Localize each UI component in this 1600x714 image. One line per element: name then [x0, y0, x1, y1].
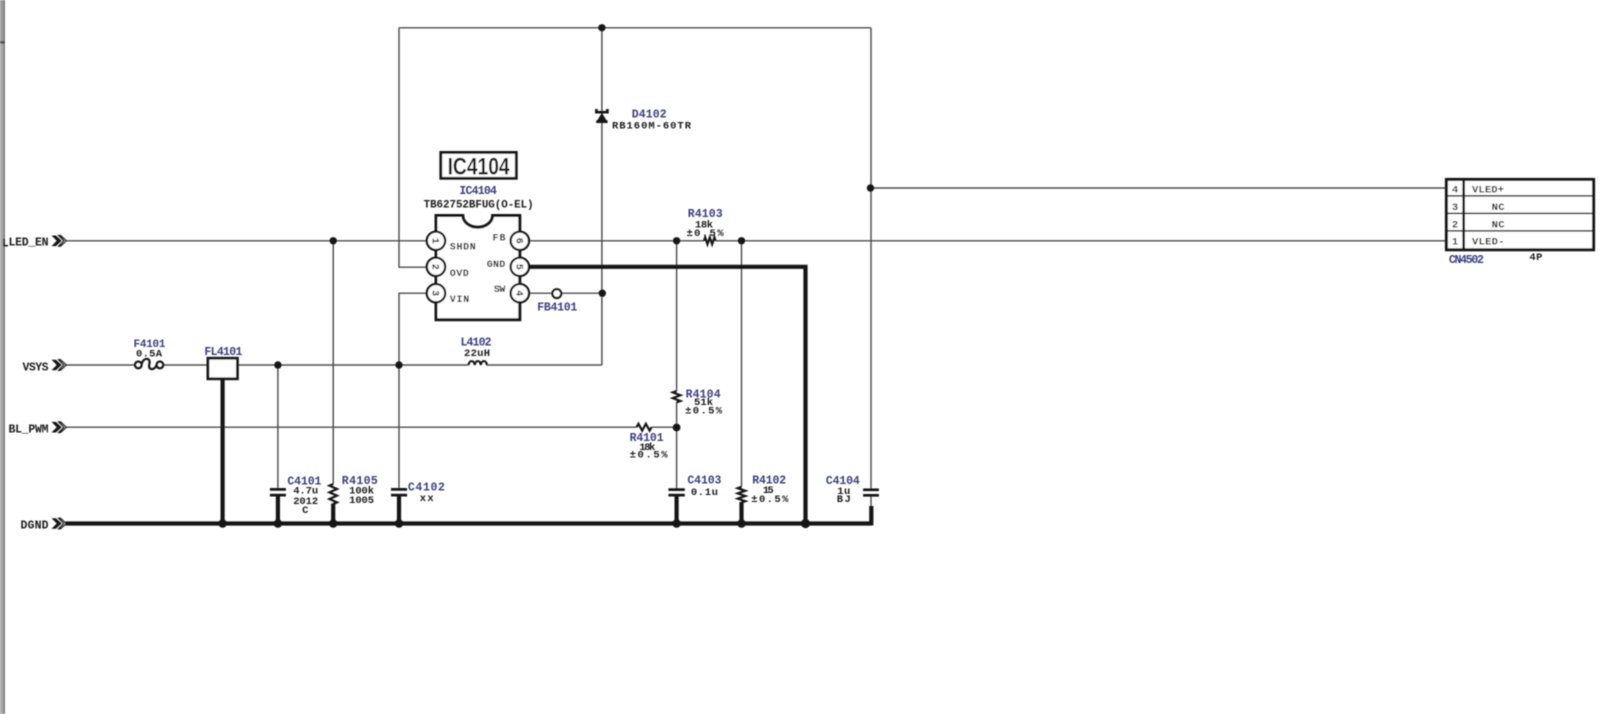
filter FL4101 — [204, 346, 242, 379]
svg-text:±0.5%: ±0.5% — [751, 494, 789, 506]
svg-text:LED_EN: LED_EN — [9, 237, 49, 250]
svg-text:BJ: BJ — [837, 494, 851, 506]
svg-text:D4102: D4102 — [632, 108, 667, 121]
svg-text:±0.5%: ±0.5% — [630, 450, 669, 462]
node SW diode — [599, 290, 606, 297]
wire FB pin6 to R4103 left — [529, 240, 704, 242]
thick R4102 stub — [739, 502, 743, 524]
node FB R4103 left — [673, 237, 680, 244]
node FB R4103 right — [738, 237, 745, 244]
svg-text:VIN: VIN — [450, 295, 470, 306]
resistor R4105 — [329, 475, 377, 507]
node bus GND elbow — [801, 519, 810, 528]
svg-text:NC: NC — [1492, 202, 1506, 214]
wire top horizontal OVD net — [399, 27, 871, 29]
svg-text:VLED+: VLED+ — [1472, 184, 1504, 196]
svg-text:2: 2 — [429, 264, 440, 270]
svg-text:DGND: DGND — [21, 520, 49, 533]
port chevron VSYS — [52, 360, 67, 371]
wire SW pin4 to diode node — [529, 292, 602, 294]
svg-text:0.1u: 0.1u — [691, 487, 718, 499]
net label LED_EN — [4, 237, 49, 250]
svg-text:GND: GND — [487, 260, 506, 271]
svg-text:1: 1 — [429, 238, 440, 244]
wire LED_EN to pin1 — [66, 240, 428, 242]
node bus C4102 — [395, 519, 404, 528]
node VSYS C4101 — [274, 361, 281, 368]
svg-text:VLED-: VLED- — [1472, 237, 1505, 249]
svg-text:0.5A: 0.5A — [136, 348, 163, 360]
svg-text:BL_PWM: BL_PWM — [9, 423, 49, 436]
wire inductor to diode column — [487, 364, 602, 366]
port chevron LED_EN — [52, 236, 67, 247]
svg-text:C4103: C4103 — [687, 475, 721, 488]
svg-text:±0.5%: ±0.5% — [685, 406, 723, 418]
svg-text:IC4104: IC4104 — [448, 154, 511, 181]
pin 5 — [511, 258, 529, 276]
node bus C4103 — [672, 519, 681, 528]
svg-text:VSYS: VSYS — [23, 361, 49, 374]
svg-text:xx: xx — [420, 493, 435, 505]
thick C4104 stub — [869, 506, 873, 525]
pin 1 — [427, 232, 445, 250]
wire diode vertical x=602 — [601, 28, 603, 365]
thick DGND bus — [66, 521, 872, 525]
node bus C4101 — [274, 519, 283, 528]
svg-text:TB62752BFUG(O-EL): TB62752BFUG(O-EL) — [424, 199, 534, 211]
node top diode junction — [598, 24, 605, 31]
IC IC4104 body — [436, 216, 520, 320]
wire VIN jog from pin3 down to VSYS — [399, 293, 427, 365]
svg-text:3: 3 — [1452, 202, 1458, 214]
wire VSYS run — [66, 364, 135, 366]
svg-text:OVD: OVD — [450, 269, 469, 280]
IC4104 title box — [441, 152, 517, 180]
svg-text:4: 4 — [1452, 184, 1458, 196]
port chevron DGND — [52, 518, 67, 529]
capacitor C4103 — [668, 475, 721, 499]
IC4104 sub labels — [424, 185, 534, 212]
thick C4102 stub — [397, 497, 401, 524]
capacitor C4101 — [270, 476, 322, 517]
svg-text:2: 2 — [1452, 219, 1458, 231]
svg-text:FL4101: FL4101 — [204, 346, 242, 359]
svg-text:±0.5%: ±0.5% — [687, 228, 725, 240]
node bus R4102 — [737, 519, 746, 528]
pin 4 — [511, 284, 529, 302]
svg-text:SHDN: SHDN — [450, 242, 476, 253]
port chevron BL_PWM — [52, 422, 67, 433]
svg-text:22uH: 22uH — [464, 348, 490, 360]
resistor R4102 — [738, 475, 789, 506]
wire R4104 column upper — [676, 241, 678, 391]
wire fuse to FL4101 — [163, 364, 208, 366]
pin 6 — [511, 232, 529, 250]
wire left loop vertical to OVD — [399, 28, 427, 267]
svg-text:1: 1 — [1452, 237, 1458, 249]
svg-text:CN4502: CN4502 — [1449, 254, 1484, 267]
thick GND wire from pin5 elbow — [529, 267, 805, 522]
svg-text:5: 5 — [512, 264, 523, 270]
wire R4102 column — [741, 241, 743, 487]
wire R4105 column — [332, 241, 334, 484]
wire C4104 below plate — [870, 496, 872, 508]
svg-text:RB160M-60TR: RB160M-60TR — [612, 120, 692, 132]
svg-text:NC: NC — [1492, 219, 1506, 231]
svg-text:4P: 4P — [1529, 252, 1542, 264]
wire C4102 column — [398, 365, 400, 489]
pin 2 — [427, 258, 445, 276]
wire right vertical x=871 top to C4104 — [870, 28, 872, 489]
node LED_EN R4105 — [330, 237, 337, 244]
wire BL_PWM to R4101 — [66, 426, 637, 428]
node VLED+ branch — [867, 184, 874, 191]
thick FL4101 ground stub — [221, 378, 225, 524]
wire FL4101 to inductor — [237, 364, 468, 366]
inductor L4102 — [461, 336, 492, 365]
scrollbar strip left edge — [0, 0, 5, 714]
node VSYS C4102 — [395, 361, 402, 368]
pin 3 — [427, 284, 445, 302]
svg-text:6: 6 — [512, 238, 523, 244]
svg-text:1005: 1005 — [349, 495, 374, 507]
svg-text:FB4101: FB4101 — [537, 301, 577, 314]
fuse F4101 — [134, 339, 166, 369]
node bus FL4101 — [218, 519, 227, 528]
resistor R4101 — [630, 424, 669, 462]
wire R4103 right to connector pin1 — [716, 240, 1445, 242]
svg-text:SW: SW — [494, 285, 506, 296]
svg-text:4: 4 — [512, 290, 523, 296]
svg-text:FB: FB — [493, 234, 506, 245]
resistor R4103 — [687, 208, 725, 244]
connector CN4502 — [1446, 179, 1593, 249]
svg-text:IC4104: IC4104 — [459, 185, 497, 198]
resistor R4104 — [673, 388, 723, 417]
wire R4104 column lower to C4103 — [676, 402, 678, 489]
thick R4105 stub — [331, 504, 335, 524]
ferrite bead FB4101 — [537, 289, 577, 314]
capacitor C4102 — [391, 482, 445, 505]
thick C4101 stub — [276, 497, 280, 524]
capacitor C4104 — [826, 475, 879, 506]
node R4101 R4104 — [673, 424, 681, 432]
thick C4103 stub — [674, 497, 678, 524]
wire junction to connector pin4 — [871, 187, 1446, 189]
svg-text:C: C — [302, 505, 309, 517]
svg-text:3: 3 — [429, 290, 440, 296]
diode D4102 — [596, 108, 691, 132]
wire C4101 column — [277, 365, 279, 489]
wire R4101 to node — [652, 426, 677, 428]
node bus R4105 — [329, 519, 338, 528]
